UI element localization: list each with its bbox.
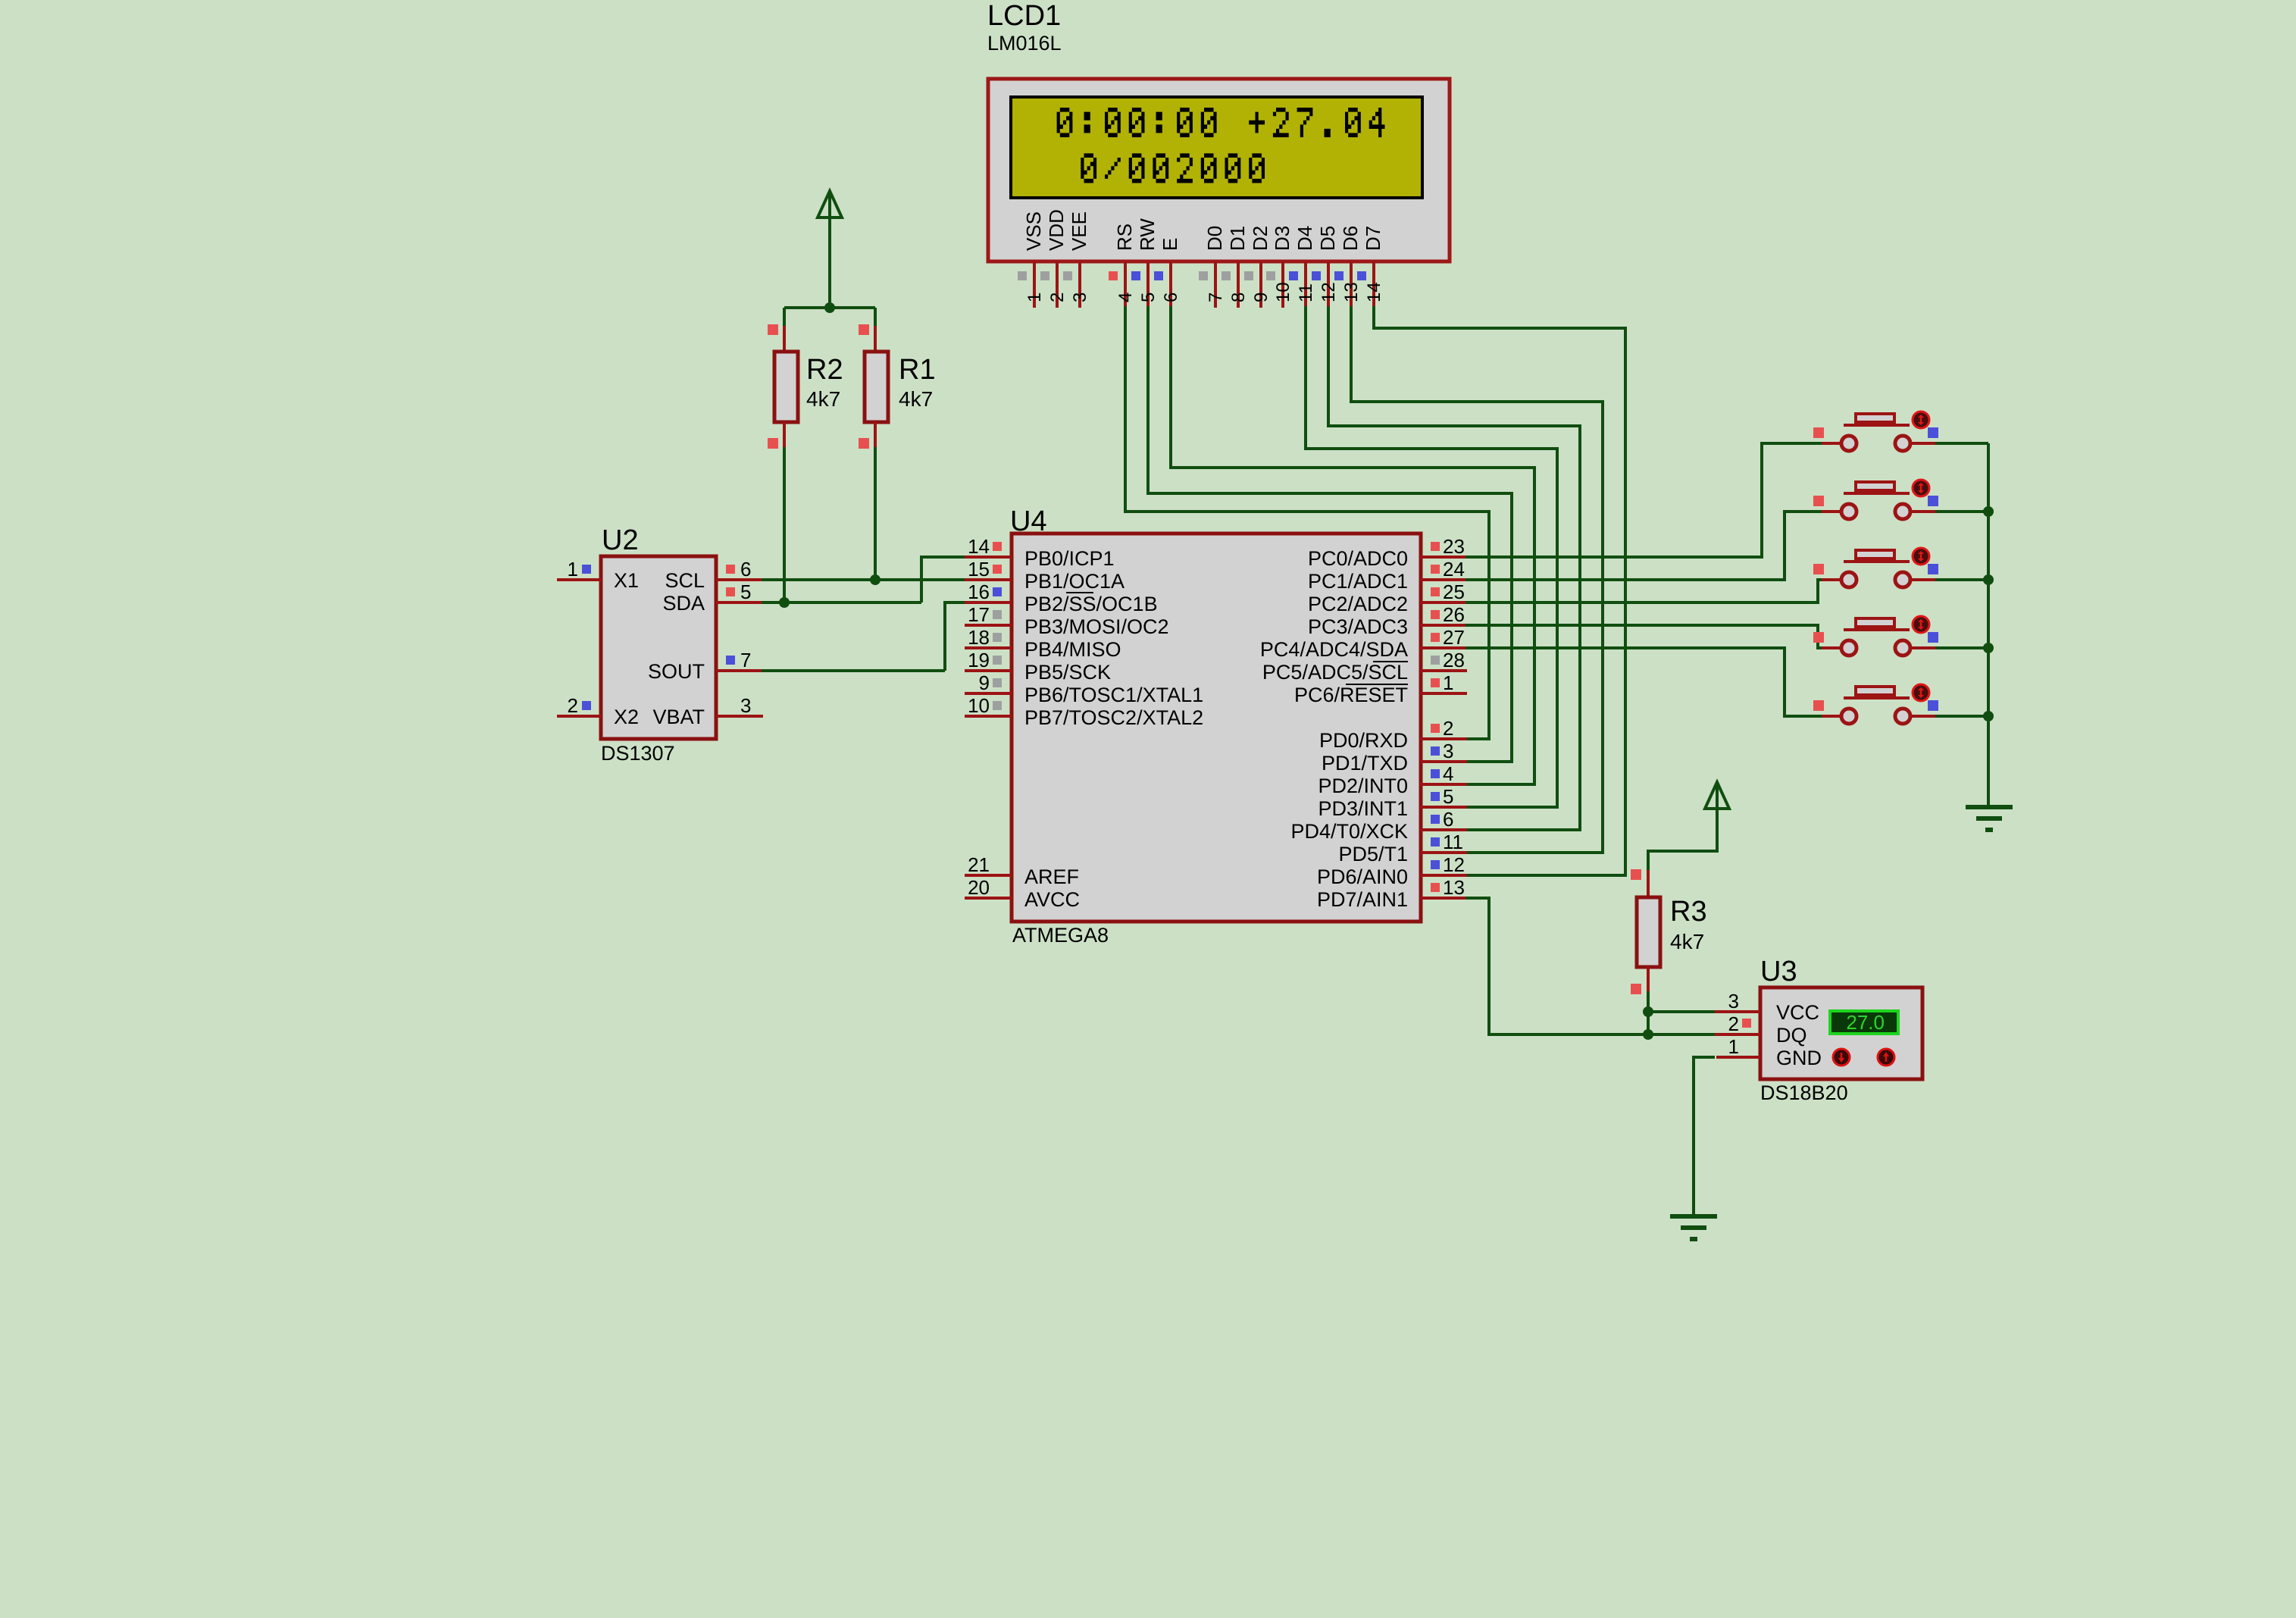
svg-text:20: 20: [968, 876, 990, 899]
LCD pin 8 stub: [1237, 261, 1240, 308]
svg-text:PB4/MISO: PB4/MISO: [1024, 638, 1121, 661]
svg-text:AVCC: AVCC: [1024, 888, 1080, 911]
U3 pin 2 square: [1742, 1019, 1751, 1028]
U4 pin 10 stub (PB7/TOSC2/XTAL2): [965, 715, 1012, 718]
svg-text:4: 4: [1115, 293, 1136, 302]
svg-text:8: 8: [1228, 293, 1249, 302]
LCD pin 6 state square: [1154, 271, 1163, 280]
svg-text:U3: U3: [1760, 956, 1797, 987]
wire R2 bottom to SDA: [783, 447, 786, 602]
LCD1 body: [988, 79, 1450, 261]
LCD pin 7 state square: [1199, 271, 1208, 280]
wire PC2 to button3: [1465, 580, 1823, 602]
U3 increment button: [1878, 1049, 1894, 1066]
svg-text:3: 3: [1443, 740, 1453, 762]
svg-text:D5: D5: [1316, 226, 1339, 251]
svg-text:PC5/ADC5/SCL: PC5/ADC5/SCL: [1262, 661, 1408, 684]
LCD pin 2 state square: [1040, 271, 1049, 280]
svg-text:16: 16: [968, 581, 990, 603]
wire PC4 to button5: [1465, 648, 1823, 716]
svg-text:DS18B20: DS18B20: [1760, 1081, 1848, 1104]
svg-text:3: 3: [1070, 293, 1090, 302]
resistor R3 bottom pin square: [1631, 984, 1641, 994]
LCD pin 8 state square: [1222, 271, 1231, 280]
U4 pin 2 stub (PD0/RXD): [1420, 737, 1467, 740]
U2 pin 1 square: [582, 565, 591, 574]
svg-text:19: 19: [968, 649, 990, 671]
U4 pin 18 square: [993, 633, 1002, 642]
U4 pin 9 stub (PB6/TOSC1/XTAL1): [965, 692, 1012, 695]
ground U3: [1670, 1214, 1717, 1219]
svg-text:VBAT: VBAT: [652, 706, 705, 728]
LCD pin 9 state square: [1244, 271, 1253, 280]
svg-text:10: 10: [1273, 282, 1293, 302]
LCD pin 14 stub: [1372, 261, 1375, 308]
svg-text:7: 7: [740, 649, 751, 671]
LCD pin 13 state square: [1334, 271, 1344, 280]
svg-text:PD5/T1: PD5/T1: [1338, 843, 1408, 865]
power symbol VCC right: [1716, 785, 1719, 853]
U4 pin 13 square: [1431, 883, 1440, 892]
U4 pin 19 stub (PB5/SCK): [965, 669, 1012, 672]
resistor R3 pin top: [1647, 870, 1650, 897]
U4 pin 23 stub (PC0/ADC0): [1420, 556, 1467, 559]
wire riser SOUT to PB2: [945, 602, 965, 671]
svg-text:RW: RW: [1136, 218, 1159, 251]
svg-text:6: 6: [1443, 808, 1453, 831]
svg-text:DQ: DQ: [1776, 1024, 1807, 1047]
svg-text:15: 15: [968, 558, 990, 581]
svg-text:AREF: AREF: [1024, 865, 1079, 888]
junction R3 VCC row: [1643, 1006, 1653, 1017]
LCD pin 9 stub: [1259, 261, 1262, 308]
svg-text:PB7/TOSC2/XTAL2: PB7/TOSC2/XTAL2: [1024, 706, 1203, 729]
svg-text:PC2/ADC2: PC2/ADC2: [1308, 593, 1408, 615]
LCD pin 3 stub: [1078, 261, 1081, 308]
svg-text:R3: R3: [1670, 896, 1707, 928]
junction bus 945: [1983, 711, 1994, 721]
junction bus 855: [1983, 643, 1994, 653]
LCD text line 2: [1081, 153, 1265, 183]
svg-text:PB5/SCK: PB5/SCK: [1024, 661, 1111, 684]
U2 pin 6 square: [726, 565, 735, 574]
U4 pin 27 square: [1431, 633, 1440, 642]
svg-text:PD7/AIN1: PD7/AIN1: [1317, 888, 1408, 911]
U4 pin 1 stub (PC6/RESET): [1420, 692, 1467, 695]
svg-text:VDD: VDD: [1045, 209, 1068, 251]
resistor R1 pin bottom: [874, 422, 877, 449]
svg-text:VCC: VCC: [1776, 1001, 1819, 1024]
svg-text:9: 9: [979, 671, 990, 694]
svg-text:1: 1: [1024, 293, 1045, 302]
resistor R2 pin bottom: [783, 422, 786, 449]
svg-text:D4: D4: [1293, 226, 1316, 251]
wire button 3 to bus: [1935, 578, 1988, 581]
svg-text:X2: X2: [614, 706, 639, 728]
svg-text:PD4/T0/XCK: PD4/T0/XCK: [1290, 820, 1408, 843]
svg-text:E: E: [1159, 238, 1181, 251]
svg-text:10: 10: [968, 694, 990, 717]
svg-text:LCD1: LCD1: [987, 0, 1061, 32]
wire button bus: [1987, 443, 1990, 807]
U3 temperature display: [1830, 1011, 1898, 1034]
svg-text:SOUT: SOUT: [648, 660, 705, 683]
wire PD7 to U3 DQ: [1465, 898, 1715, 1034]
svg-text:12: 12: [1318, 282, 1339, 302]
wire button 2 to bus: [1935, 510, 1988, 513]
LCD pin 12 state square: [1312, 271, 1321, 280]
push button 2: [1822, 510, 1841, 513]
push button 5: [1822, 715, 1841, 718]
U2 pin 1 X1 stub: [557, 578, 601, 581]
svg-text:7: 7: [1206, 293, 1226, 302]
U4 PB2 SS overline: [1066, 592, 1093, 593]
LCD pin 4 state square: [1109, 271, 1118, 280]
U4 pin 24 stub (PC1/ADC1): [1420, 578, 1467, 581]
U4 pin 12 square: [1431, 860, 1440, 869]
svg-text:D2: D2: [1249, 226, 1272, 251]
svg-text:5: 5: [1138, 293, 1159, 302]
svg-text:3: 3: [1728, 990, 1739, 1012]
svg-text:1: 1: [568, 558, 578, 581]
wire button 5 to bus: [1935, 715, 1988, 718]
U4 pin 17 stub (PB3/MOSI/OC2): [965, 624, 1012, 627]
wire PC0 to button1: [1465, 443, 1823, 557]
LCD1 screen: [1011, 97, 1422, 198]
wire RS LCD4 to PD0: [1125, 306, 1489, 739]
wire button 1 to bus: [1935, 442, 1988, 445]
U2 pin 3 VBAT stub: [716, 715, 763, 718]
U4 pin 16 square: [993, 587, 1002, 596]
svg-text:R1: R1: [899, 354, 936, 386]
wire D7 LCD14 to PD6: [1374, 306, 1625, 875]
U4 pin 25 square: [1431, 587, 1440, 596]
wire SCL net U2.6 to U4 PB1: [762, 578, 965, 581]
U4 pin 16 stub (PB2/SS/OC1B): [965, 601, 1012, 604]
LCD pin 12 stub: [1327, 261, 1330, 308]
U4 pin 3 stub (PD1/TXD): [1420, 760, 1467, 763]
power symbol VCC left: [828, 194, 831, 308]
junction bus 675: [1983, 506, 1994, 517]
svg-text:R2: R2: [806, 354, 843, 386]
chip U3 body: [1760, 987, 1922, 1079]
resistor R1 body: [865, 352, 888, 422]
svg-text:D1: D1: [1226, 226, 1249, 251]
svg-text:D0: D0: [1203, 226, 1226, 251]
U4 pin 28 stub (PC5/ADC5/SCL): [1420, 669, 1467, 672]
wire PC3 to button4: [1465, 625, 1823, 648]
junction R1 on SCL: [870, 574, 881, 585]
svg-text:PC0/ADC0: PC0/ADC0: [1308, 547, 1408, 570]
LCD text line 1: [1057, 108, 1385, 137]
U4 pin 15 stub (PB1/OC1A): [965, 578, 1012, 581]
wire RW LCD5 to PD1: [1148, 306, 1512, 762]
U4 pin 6 square: [1431, 815, 1440, 824]
wire R1 top: [874, 308, 877, 327]
push button 1: [1822, 442, 1841, 445]
U4 pin 3 square: [1431, 746, 1440, 756]
LCD pin 10 stub: [1281, 261, 1284, 308]
svg-text:14: 14: [968, 535, 990, 558]
U3 pin 2 DQ stub: [1715, 1033, 1760, 1036]
U4 pin 10 square: [993, 701, 1002, 710]
svg-text:4: 4: [1443, 762, 1453, 785]
svg-text:PC4/ADC4/SDA: PC4/ADC4/SDA: [1260, 638, 1408, 661]
resistor R1 top pin square: [859, 324, 869, 335]
svg-text:PB3/MOSI/OC2: PB3/MOSI/OC2: [1024, 615, 1169, 638]
resistor R2 bottom pin square: [768, 438, 778, 449]
svg-text:RS: RS: [1113, 224, 1136, 251]
U4 pin 12 stub (PD6/AIN0): [1420, 874, 1467, 877]
wire R2 top: [783, 308, 786, 327]
svg-text:PB6/TOSC1/XTAL1: PB6/TOSC1/XTAL1: [1024, 684, 1203, 706]
wire power to R3 top: [1648, 851, 1717, 872]
LCD pin 4 stub: [1124, 261, 1127, 308]
junction power node: [824, 302, 835, 313]
U4 pin 20 stub (AVCC): [965, 897, 1012, 900]
U4 pin 27 stub (PC4/ADC4/SDA): [1420, 646, 1467, 649]
junction R3 DQ row: [1643, 1029, 1653, 1040]
svg-text:24: 24: [1443, 558, 1465, 581]
svg-text:PD3/INT1: PD3/INT1: [1318, 797, 1408, 820]
U4 pin 23 square: [1431, 542, 1440, 551]
resistor R3 body: [1637, 897, 1660, 967]
svg-text:X1: X1: [614, 569, 639, 592]
svg-text:18: 18: [968, 626, 990, 649]
wire PC1 to button2: [1465, 512, 1823, 580]
svg-text:9: 9: [1251, 293, 1272, 302]
U4 pin 15 square: [993, 565, 1002, 574]
wire button 4 to bus: [1935, 646, 1988, 649]
svg-text:D3: D3: [1271, 226, 1293, 251]
U2 pin 2 square: [582, 701, 591, 710]
svg-text:23: 23: [1443, 535, 1465, 558]
svg-text:5: 5: [1443, 785, 1453, 808]
U2 pin 5 square: [726, 587, 735, 596]
U4 pin 14 stub (PB0/ICP1): [965, 556, 1012, 559]
U4 pin 4 square: [1431, 769, 1440, 778]
LCD pin 1 state square: [1018, 271, 1027, 280]
resistor R1 bottom pin square: [859, 438, 869, 449]
svg-text:6: 6: [740, 558, 751, 581]
svg-text:SDA: SDA: [662, 592, 705, 615]
svg-text:4k7: 4k7: [1670, 930, 1704, 953]
svg-text:27: 27: [1443, 626, 1465, 649]
svg-text:PD2/INT0: PD2/INT0: [1318, 775, 1408, 797]
svg-text:6: 6: [1161, 293, 1181, 302]
resistor R3 pin bottom: [1647, 967, 1650, 993]
svg-text:1: 1: [1443, 671, 1453, 694]
wire power to R2 R1 tops: [784, 306, 875, 309]
chip U4 body: [1012, 534, 1421, 922]
wire riser SDA to PB0: [921, 557, 965, 602]
svg-text:28: 28: [1443, 649, 1465, 671]
U4 pin 5 square: [1431, 792, 1440, 801]
U4 pin 6 stub (PD4/T0/XCK): [1420, 828, 1467, 831]
svg-text:GND: GND: [1776, 1047, 1822, 1069]
svg-text:SCL: SCL: [665, 569, 705, 592]
svg-text:25: 25: [1443, 581, 1465, 603]
LCD pin 7 stub: [1214, 261, 1217, 308]
LCD pin 10 state square: [1266, 271, 1275, 280]
push button 4: [1822, 646, 1841, 649]
U4 pin 11 stub (PD5/T1): [1420, 851, 1467, 854]
wire D5 LCD12 to PD4: [1328, 306, 1580, 830]
LCD pin 1 stub: [1033, 261, 1036, 308]
U4 pin 28 square: [1431, 656, 1440, 665]
LCD pin 13 stub: [1350, 261, 1353, 308]
wire SDA net U2.5 to riser: [762, 601, 921, 604]
svg-text:U2: U2: [602, 524, 639, 556]
U4 pin 18 stub (PB4/MISO): [965, 646, 1012, 649]
svg-text:11: 11: [1296, 283, 1316, 302]
LCD pin 11 state square: [1289, 271, 1298, 280]
resistor R2 body: [774, 352, 798, 422]
svg-text:PB0/ICP1: PB0/ICP1: [1024, 547, 1115, 570]
svg-text:21: 21: [968, 853, 990, 876]
wire VCC row to U3: [1648, 1010, 1715, 1013]
svg-text:VSS: VSS: [1022, 211, 1045, 251]
svg-text:PB1/OC1A: PB1/OC1A: [1024, 570, 1125, 593]
resistor R1 pin top: [874, 326, 877, 352]
U4 pin 24 square: [1431, 565, 1440, 574]
wire D6 LCD13 to PD5: [1351, 306, 1603, 853]
U2 pin 7 square: [726, 656, 735, 665]
chip U2 body: [601, 556, 716, 739]
U4 pin 5 stub (PD3/INT1): [1420, 806, 1467, 809]
svg-text:PD6/AIN0: PD6/AIN0: [1317, 865, 1408, 888]
U4 pin 26 stub (PC3/ADC3): [1420, 624, 1467, 627]
U2 pin 6 SCL stub: [716, 578, 763, 581]
wire E LCD6 to PD2: [1171, 306, 1534, 784]
U4 pin 1 square: [1431, 678, 1440, 687]
svg-text:26: 26: [1443, 603, 1465, 626]
svg-text:2: 2: [1047, 293, 1068, 302]
U4 pin 14 square: [993, 542, 1002, 551]
resistor R2 top pin square: [768, 324, 778, 335]
svg-text:VEE: VEE: [1068, 211, 1090, 251]
U4 pin 19 square: [993, 656, 1002, 665]
svg-text:DS1307: DS1307: [601, 742, 675, 765]
LCD pin 3 state square: [1063, 271, 1072, 280]
svg-text:PD0/RXD: PD0/RXD: [1319, 729, 1408, 752]
U4 PC5 SCL overline: [1373, 661, 1408, 662]
svg-text:D7: D7: [1362, 226, 1384, 251]
svg-text:3: 3: [740, 694, 751, 717]
U4 pin 26 square: [1431, 610, 1440, 619]
svg-text:PD1/TXD: PD1/TXD: [1322, 752, 1408, 775]
svg-text:2: 2: [1728, 1012, 1739, 1035]
svg-text:27.0: 27.0: [1846, 1011, 1885, 1034]
U4 pin 11 square: [1431, 837, 1440, 847]
U2 pin 2 X2 stub: [557, 715, 601, 718]
U3 pin 1 GND stub: [1716, 1056, 1760, 1059]
wire SOUT net U2.7: [762, 669, 945, 672]
wire R1 bottom to SCL: [874, 447, 877, 580]
U3 pin 3 VCC stub: [1715, 1010, 1760, 1013]
resistor R3 top pin square: [1631, 869, 1641, 880]
svg-text:17: 17: [968, 603, 990, 626]
svg-text:5: 5: [740, 581, 751, 603]
push button 3: [1822, 578, 1841, 581]
U4 pin 13 stub (PD7/AIN1): [1420, 897, 1467, 900]
U4 pin 17 square: [993, 610, 1002, 619]
resistor R2 pin top: [783, 326, 786, 352]
svg-text:ATMEGA8: ATMEGA8: [1012, 924, 1109, 947]
svg-text:12: 12: [1443, 853, 1465, 876]
svg-text:PC1/ADC1: PC1/ADC1: [1308, 570, 1408, 593]
svg-text:14: 14: [1364, 282, 1384, 302]
LCD pin 6 stub: [1169, 261, 1172, 308]
wire D4 LCD11 to PD3: [1306, 306, 1557, 807]
svg-text:13: 13: [1443, 876, 1465, 899]
U2 pin 7 SOUT stub: [716, 669, 763, 672]
LCD pin 5 state square: [1131, 271, 1140, 280]
U4 pin 21 stub (AREF): [965, 874, 1012, 877]
junction R2 on SDA: [779, 597, 790, 608]
svg-text:PC3/ADC3: PC3/ADC3: [1308, 615, 1408, 638]
U2 pin 5 SDA stub: [716, 601, 763, 604]
LCD pin 11 stub: [1304, 261, 1307, 308]
LCD pin 2 stub: [1056, 261, 1059, 308]
svg-text:PB2/SS/OC1B: PB2/SS/OC1B: [1024, 593, 1158, 615]
LCD pin 14 state square: [1357, 271, 1366, 280]
svg-text:2: 2: [568, 694, 578, 717]
svg-text:LM016L: LM016L: [987, 32, 1062, 55]
svg-text:4k7: 4k7: [806, 387, 840, 411]
svg-text:D6: D6: [1339, 226, 1362, 251]
U3 decrement button: [1833, 1049, 1850, 1066]
svg-text:PC6/RESET: PC6/RESET: [1294, 684, 1408, 706]
U4 pin 25 stub (PC2/ADC2): [1420, 601, 1467, 604]
svg-text:2: 2: [1443, 717, 1453, 740]
wire R3 bottom to U3: [1647, 991, 1650, 1034]
U4 pin 4 stub (PD2/INT0): [1420, 783, 1467, 786]
LCD pin 5 stub: [1146, 261, 1150, 308]
junction bus 765: [1983, 574, 1994, 585]
U4 PC6 RESET overline: [1346, 684, 1408, 685]
svg-text:4k7: 4k7: [899, 387, 933, 411]
wire U3 GND to ground: [1694, 1057, 1715, 1216]
ground buttons: [1966, 805, 2013, 809]
U4 pin 9 square: [993, 678, 1002, 687]
svg-text:11: 11: [1443, 831, 1463, 853]
U4 pin 2 square: [1431, 724, 1440, 733]
svg-text:1: 1: [1728, 1035, 1739, 1058]
svg-text:13: 13: [1341, 282, 1362, 302]
